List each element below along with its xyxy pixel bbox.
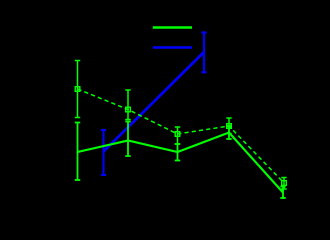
green dashed error bar 5 [281, 178, 286, 190]
green dashed error bar 1 [75, 61, 80, 118]
green square marker 4 [227, 124, 232, 129]
green solid data line [78, 133, 284, 193]
green square marker 1 [75, 87, 80, 92]
legend blue line [153, 46, 192, 48]
legend green line [153, 26, 192, 28]
blue error bar 1 [101, 130, 106, 175]
green square marker 5 [282, 181, 287, 186]
green solid error bar 2 [125, 122, 130, 157]
green solid error bar 5 [280, 187, 285, 199]
blue data line [104, 52, 205, 152]
blue error bar 2 [201, 33, 206, 73]
green dashed data line [78, 89, 285, 183]
green solid error bar 3 [175, 144, 180, 161]
green solid error bar 1 [75, 123, 80, 181]
green solid error bar 4 [226, 126, 231, 139]
green dashed error bar 4 [226, 118, 231, 134]
green square marker 3 [175, 132, 180, 137]
green dashed error bar 2 [125, 90, 130, 120]
green dashed error bar 3 [175, 127, 180, 144]
green square marker 2 [126, 107, 131, 112]
